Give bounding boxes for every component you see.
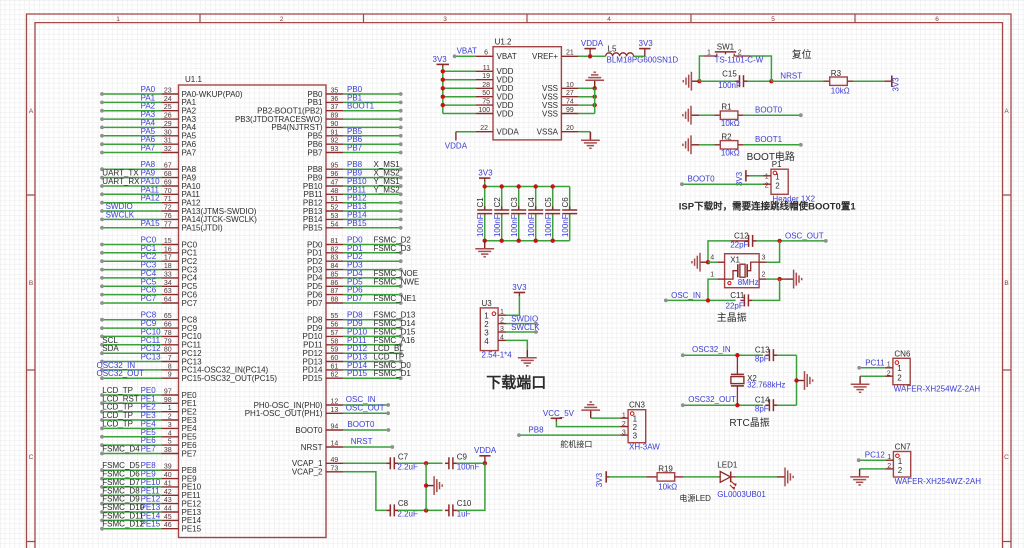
node end dot: [100, 109, 104, 113]
node end dot: [100, 92, 104, 96]
pin PC12 lead: [161, 352, 178, 354]
wire right PB10: [343, 185, 401, 187]
svg-text:UART_RX: UART_RX: [102, 177, 140, 186]
power flag VDDA down: [455, 132, 457, 141]
svg-text:2: 2: [775, 182, 780, 191]
svg-text:66: 66: [164, 322, 172, 329]
pin PA5 lead: [161, 135, 178, 137]
wire right PD8: [343, 319, 401, 321]
pin PB4(NJTRST) lead: [326, 126, 343, 128]
node end dot: [399, 351, 403, 355]
wire PE7: [102, 453, 161, 455]
svg-text:3: 3: [622, 429, 626, 436]
svg-text:1: 1: [775, 172, 780, 181]
svg-text:3V3: 3V3: [433, 55, 448, 64]
svg-text:48: 48: [331, 188, 339, 195]
node end dot: [399, 276, 403, 280]
svg-text:94: 94: [331, 424, 339, 431]
wire PA8: [102, 168, 161, 170]
svg-text:1: 1: [168, 405, 172, 412]
wire pin1 to OSC_IN: [717, 278, 724, 280]
svg-text:OSC_OUT: OSC_OUT: [785, 231, 824, 240]
R1 lead left: [715, 114, 721, 116]
wire right PD15: [343, 377, 401, 379]
node end dot: [399, 192, 403, 196]
pin PB11 lead: [326, 193, 343, 195]
node end dot: [399, 101, 403, 105]
junction: [441, 103, 445, 107]
node end dot: [399, 301, 403, 305]
svg-text:CN3: CN3: [629, 401, 646, 410]
pin PD9 lead: [326, 327, 343, 329]
pin PB10 lead: [326, 185, 343, 187]
wire OSC_IN row: [666, 299, 736, 301]
node end dot: [100, 435, 104, 439]
svg-text:8MHz: 8MHz: [738, 278, 759, 287]
svg-text:R1: R1: [721, 103, 732, 112]
node end dot: [399, 117, 403, 121]
wire right PB8: [343, 168, 401, 170]
crystal X1 body: [725, 254, 760, 288]
pin BOOT0 lead: [326, 429, 343, 431]
wire right PB15: [343, 227, 401, 229]
junction OSC_IN: [706, 298, 710, 302]
pin PD14 lead: [326, 369, 343, 371]
junction top: [517, 184, 521, 188]
CN3 pin1 indicator circle: [630, 412, 634, 416]
svg-text:82: 82: [331, 246, 339, 253]
svg-text:23: 23: [164, 88, 172, 95]
node end dot: [100, 251, 104, 255]
pin PD5 lead: [326, 285, 343, 287]
svg-text:100nF: 100nF: [544, 214, 553, 237]
wire PC8: [102, 319, 161, 321]
node end dot: [100, 427, 104, 431]
node end dot: [399, 360, 403, 364]
svg-text:3: 3: [633, 432, 638, 441]
svg-text:93: 93: [331, 146, 339, 153]
pin VBAT lead: [476, 55, 493, 57]
wire PE0: [102, 394, 161, 396]
node end dot: [399, 226, 403, 230]
node end dot: [399, 343, 403, 347]
svg-text:52: 52: [331, 205, 339, 212]
wire PE4: [102, 427, 161, 429]
svg-text:3: 3: [762, 255, 766, 262]
wire 3V3 to R19: [610, 476, 647, 478]
pin PD6 lead: [326, 294, 343, 296]
capacitor C9: [445, 457, 457, 469]
node end dot: [100, 134, 104, 138]
svg-text:4: 4: [607, 16, 611, 23]
wire pin3 to OSC_OUT: [766, 241, 779, 262]
svg-text:51: 51: [331, 196, 339, 203]
connector U3 body: [480, 308, 498, 351]
pin PE8 lead: [161, 469, 178, 471]
svg-text:38: 38: [164, 447, 172, 454]
pin PC9 lead: [161, 327, 178, 329]
svg-text:10kΩ: 10kΩ: [658, 482, 677, 491]
P1 pin1 lead: [763, 175, 771, 177]
svg-text:1: 1: [707, 50, 711, 57]
ground VSSA: [581, 132, 600, 148]
node end dot: [100, 485, 104, 489]
svg-text:PC15-OSC32_OUT(PC15): PC15-OSC32_OUT(PC15): [182, 374, 278, 383]
svg-text:2: 2: [168, 414, 172, 421]
node end dot: [399, 184, 403, 188]
resistor R3: [830, 77, 848, 85]
pin3 lead: [759, 261, 766, 263]
svg-text:OSC32_IN: OSC32_IN: [692, 345, 731, 354]
pin PE6 lead: [161, 444, 178, 446]
svg-text:3V3: 3V3: [639, 39, 654, 48]
wire VSS 10: [578, 87, 594, 89]
node end dot: [453, 54, 457, 58]
wire OSC32_IN row: [683, 354, 763, 356]
node end dot: [100, 117, 104, 121]
svg-text:PA12: PA12: [141, 194, 161, 203]
junction: [424, 508, 428, 512]
node end dot: [681, 353, 685, 357]
pin VDD lead 28: [476, 87, 493, 89]
ground: [426, 476, 442, 495]
wire VDD 75: [443, 104, 476, 106]
node end dot: [399, 167, 403, 171]
wire PE9: [102, 478, 161, 480]
pin PB0 lead: [326, 93, 343, 95]
svg-text:50: 50: [482, 90, 490, 97]
svg-text:VDD: VDD: [497, 109, 514, 118]
node end dot: [100, 176, 104, 180]
pin PA3 lead: [161, 118, 178, 120]
wire VCAP_1 to C7: [343, 462, 386, 464]
X1 pin1 indicator circle: [728, 282, 731, 285]
connector CN7 body: [893, 452, 910, 478]
svg-text:67: 67: [164, 163, 172, 170]
svg-text:100nF: 100nF: [476, 214, 485, 237]
capacitor C6: [562, 187, 577, 241]
svg-text:PA15(JTDI): PA15(JTDI): [182, 224, 224, 233]
svg-text:SWCLK: SWCLK: [106, 210, 135, 219]
node end dot: [100, 527, 104, 531]
junction VDDA: [588, 54, 592, 58]
power flag 3V3 up: [639, 49, 650, 57]
svg-text:2: 2: [622, 421, 626, 428]
pin VCAP_1 lead: [326, 462, 343, 464]
pin PA14(JTCK-SWCLK) lead: [161, 218, 178, 220]
pin VDDA lead: [476, 131, 493, 133]
wire PC2: [102, 260, 161, 262]
wire right PD10: [343, 335, 401, 337]
svg-text:83: 83: [331, 255, 339, 262]
svg-text:FSMC_D3: FSMC_D3: [374, 244, 412, 253]
svg-text:OSC32_OUT: OSC32_OUT: [97, 369, 145, 378]
pin PB3(JTDOTRACESWO) lead: [326, 118, 343, 120]
wire PC0: [102, 244, 161, 246]
pin PE0 lead: [161, 394, 178, 396]
svg-text:PA7: PA7: [141, 144, 156, 153]
svg-text:VSS: VSS: [542, 109, 558, 118]
junction: [441, 86, 445, 90]
wire VSSA down: [589, 132, 591, 141]
svg-text:NRST: NRST: [351, 437, 373, 446]
wire SWDIO: [506, 323, 536, 325]
svg-text:71: 71: [164, 196, 172, 203]
op U1.2 MCU power body: [493, 47, 561, 140]
svg-text:PB15: PB15: [347, 219, 367, 228]
svg-text:97: 97: [164, 389, 172, 396]
node end dot: [664, 299, 668, 303]
junction gnd: [424, 483, 428, 487]
node end dot: [399, 368, 403, 372]
svg-text:80: 80: [164, 347, 172, 354]
wire right PB2-BOOT1(PB2): [343, 110, 401, 112]
pin PA6 lead: [161, 143, 178, 145]
wire PA1: [102, 101, 161, 103]
pin PE9 lead: [161, 478, 178, 480]
svg-text:VREF+: VREF+: [532, 52, 558, 61]
svg-text:NRST: NRST: [780, 71, 802, 80]
wire VDD 11: [443, 70, 476, 72]
svg-text:49: 49: [331, 457, 339, 464]
svg-text:73: 73: [331, 465, 339, 472]
svg-text:C4: C4: [527, 197, 536, 208]
node end dot: [100, 151, 104, 155]
wire cap bottom rail: [485, 240, 570, 242]
wire PC4: [102, 277, 161, 279]
svg-text:SWCLK: SWCLK: [511, 323, 540, 332]
svg-text:C2: C2: [493, 197, 502, 208]
U3 pin 1 lead: [498, 314, 506, 316]
pin PB9 lead: [326, 177, 343, 179]
X1 crystal symbol: [725, 262, 760, 279]
wire PE6: [102, 444, 161, 446]
node end dot: [399, 326, 403, 330]
power flag VDDA: [479, 456, 490, 464]
wire R2 to BOOT1: [744, 144, 801, 146]
wire right PB7: [343, 152, 401, 154]
svg-text:5: 5: [771, 16, 775, 23]
pin PA1 lead: [161, 101, 178, 103]
svg-text:63: 63: [164, 288, 172, 295]
ground CN6: [851, 376, 870, 392]
wire C9 to VDDA: [457, 462, 485, 464]
svg-text:41: 41: [164, 480, 172, 487]
svg-text:74: 74: [566, 99, 574, 106]
svg-text:3: 3: [168, 422, 172, 429]
svg-text:U1.1: U1.1: [185, 75, 202, 84]
svg-text:98: 98: [164, 397, 172, 404]
pin PB14 lead: [326, 218, 343, 220]
svg-text:2: 2: [897, 374, 902, 383]
svg-text:68: 68: [164, 171, 172, 178]
svg-text:B: B: [1004, 280, 1008, 287]
svg-text:3: 3: [443, 16, 447, 23]
node end dot: [680, 182, 684, 186]
svg-text:PE15: PE15: [182, 525, 202, 534]
svg-text:R3: R3: [831, 69, 842, 78]
svg-text:C15: C15: [722, 70, 737, 79]
wire U3 pin4 to ground: [506, 340, 527, 349]
svg-text:PE7: PE7: [182, 449, 198, 458]
wire CN6 pin2 to gnd: [860, 375, 885, 377]
pin VREF+ lead: [561, 55, 578, 57]
pin PB2-BOOT1(PB2) lead: [326, 110, 343, 112]
svg-text:75: 75: [482, 99, 490, 106]
svg-text:19: 19: [482, 73, 490, 80]
pin PD3 lead: [326, 269, 343, 271]
R19 lead right: [675, 476, 683, 478]
svg-text:BOOT0: BOOT0: [755, 106, 783, 115]
pin PE7 lead: [161, 453, 178, 455]
wire OSC32_IN: [102, 369, 161, 371]
svg-text:FSMC_NWE: FSMC_NWE: [374, 277, 420, 286]
pin PB1 lead: [326, 101, 343, 103]
svg-text:57: 57: [331, 330, 339, 337]
pin PA15(JTDI) lead: [161, 227, 178, 229]
junction top: [551, 184, 555, 188]
svg-text:39: 39: [164, 464, 172, 471]
power flag 3V3: [437, 64, 450, 68]
pin PC0 lead: [161, 244, 178, 246]
svg-text:PE7: PE7: [141, 445, 157, 454]
node end dot: [399, 109, 403, 113]
wire right PB6: [343, 143, 401, 145]
pin PH0-OSC_IN(PH0) lead: [326, 404, 343, 406]
node end dot: [399, 92, 403, 96]
wire PE15: [102, 528, 161, 530]
svg-text:8pF: 8pF: [755, 404, 769, 413]
svg-text:PB8: PB8: [528, 426, 544, 435]
CN3 pin 2 lead: [620, 426, 628, 428]
wire PC6: [102, 294, 161, 296]
node end dot: [399, 335, 403, 339]
svg-text:CN7: CN7: [895, 443, 912, 452]
junction top: [534, 184, 538, 188]
pin VSS lead 10: [561, 87, 578, 89]
connector P1 body: [771, 169, 788, 194]
ground CN7: [850, 469, 869, 485]
pin PD8 lead: [326, 319, 343, 321]
svg-text:C11: C11: [730, 291, 745, 300]
ground reset: [683, 72, 699, 91]
wire pin4: [708, 261, 717, 263]
svg-text:100nF: 100nF: [527, 214, 536, 237]
U3 pin 2 lead: [498, 323, 506, 325]
node end dot: [100, 293, 104, 297]
svg-text:6: 6: [484, 49, 488, 56]
svg-text:44: 44: [164, 506, 172, 513]
pin PH1-OSC_OUT(PH1) lead: [326, 412, 343, 414]
wire right PB14: [343, 218, 401, 220]
svg-text:79: 79: [164, 338, 172, 345]
pin PD11 lead: [326, 344, 343, 346]
svg-text:92: 92: [331, 138, 339, 145]
pin PD15 lead: [326, 377, 343, 379]
node end dot: [824, 239, 828, 243]
svg-text:3: 3: [500, 326, 504, 333]
pin VDD lead 11: [476, 70, 493, 72]
CN7 pin2 lead: [885, 468, 893, 470]
capacitor C13: [765, 349, 777, 361]
node end dot: [799, 143, 803, 147]
wire CN3 pin2: [556, 422, 620, 427]
wire VSS 74: [578, 104, 594, 106]
wire right PB13: [343, 210, 401, 212]
CN6 pin1 indicator circle: [895, 361, 899, 365]
U3 pin 3 lead: [498, 331, 506, 333]
ground LED: [777, 468, 793, 487]
junction bottom: [517, 239, 521, 243]
wire VDD 19: [443, 79, 476, 81]
R2 lead right: [738, 144, 744, 146]
svg-text:1: 1: [898, 457, 903, 466]
svg-text:42: 42: [164, 489, 172, 496]
wire PC1: [102, 252, 161, 254]
svg-text:55: 55: [331, 313, 339, 320]
svg-text:43: 43: [164, 497, 172, 504]
svg-text:PC7: PC7: [141, 294, 157, 303]
ground RTC: [797, 371, 813, 390]
node end dot: [681, 403, 685, 407]
wire CN7 pin2 to gnd: [860, 468, 886, 470]
junction: [593, 95, 597, 99]
svg-text:17: 17: [164, 255, 172, 262]
node end dot: [100, 519, 104, 523]
wire right PB5: [343, 135, 401, 137]
pin VSS lead 74: [561, 104, 578, 106]
power flag 3V3 caps: [479, 178, 490, 181]
svg-text:RTC晶振: RTC晶振: [729, 416, 769, 429]
svg-text:CN6: CN6: [894, 349, 911, 358]
junction X2 top: [735, 353, 739, 357]
svg-text:VDDA: VDDA: [581, 39, 604, 48]
svg-text:4: 4: [168, 430, 172, 437]
pin PB12 lead: [326, 202, 343, 204]
svg-text:20: 20: [566, 125, 574, 132]
svg-text:2: 2: [280, 16, 284, 23]
svg-text:U3: U3: [482, 299, 493, 308]
node end dot: [100, 201, 104, 205]
wire PC9: [102, 327, 161, 329]
R1 lead right: [738, 114, 744, 116]
svg-text:89: 89: [331, 113, 339, 120]
wire right PB1: [343, 101, 401, 103]
junction: [441, 78, 445, 82]
node end dot: [100, 502, 104, 506]
svg-text:X1: X1: [730, 255, 740, 264]
wire VSS 99: [578, 113, 594, 115]
wire right PB11: [343, 193, 401, 195]
svg-text:16: 16: [164, 246, 172, 253]
frame side ticks: [27, 195, 1012, 542]
node end dot: [399, 243, 403, 247]
junction: [593, 86, 597, 90]
svg-text:C: C: [29, 454, 34, 461]
CN7 pin1 lead: [885, 459, 893, 461]
svg-text:A: A: [1004, 108, 1009, 115]
svg-text:100nF: 100nF: [561, 214, 570, 237]
wire SWDIO: [102, 210, 161, 212]
svg-text:8pF: 8pF: [755, 354, 769, 363]
svg-text:35: 35: [331, 88, 339, 95]
pin PC15-OSC32_OUT(PC15) lead: [161, 377, 178, 379]
svg-text:2.54-1*4: 2.54-1*4: [482, 351, 513, 360]
svg-text:VBAT: VBAT: [497, 52, 517, 61]
node end dot: [100, 167, 104, 171]
node end dot: [399, 201, 403, 205]
svg-text:15: 15: [164, 238, 172, 245]
